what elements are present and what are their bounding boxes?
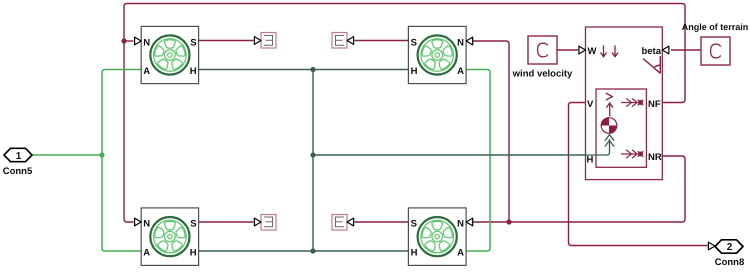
NR force icon — [621, 150, 643, 158]
junction H net top — [310, 67, 315, 72]
svg-text:A: A — [143, 66, 150, 77]
svg-text:A: A — [143, 248, 150, 259]
arrow into N port of tire BR — [466, 218, 473, 226]
svg-text:2: 2 — [727, 242, 733, 253]
center of gravity icon — [601, 118, 617, 134]
wire junction down to A port of tire BL — [102, 155, 141, 251]
wire NF output to top rail feeding N ports of left tires — [124, 4, 685, 223]
arrow into N port of tire BL — [135, 218, 142, 226]
wire S port of tire BL to terminator T3 — [198, 221, 253, 223]
svg-text:V: V — [587, 99, 594, 110]
vehicle body inner box — [596, 89, 646, 167]
svg-text:S: S — [190, 38, 196, 49]
velocity chevron icon — [606, 93, 613, 116]
junction H net bottom — [310, 248, 315, 253]
junction NR net — [506, 219, 511, 224]
tire block TL body — [141, 26, 198, 83]
wire wind velocity constant to W port — [557, 49, 578, 51]
svg-text:1: 1 — [16, 151, 22, 162]
constant block wind velocity — [528, 36, 557, 64]
svg-text:S: S — [190, 219, 196, 230]
arrow into W port — [579, 46, 586, 54]
svg-text:N: N — [143, 38, 150, 49]
wire S port of tire TL to terminator T1 — [198, 40, 253, 42]
wire terminator T2 to S port of tire TR — [355, 40, 410, 42]
arrow into beta port — [662, 46, 669, 54]
tire block BR body — [408, 208, 466, 266]
wire V output to Conn8 — [569, 103, 708, 246]
svg-text:N: N — [457, 219, 464, 230]
port Conn5 hexagon — [4, 148, 32, 162]
junction Conn5 net — [99, 152, 104, 157]
wire NR branch up to N port of tire TR — [473, 41, 509, 222]
terminator T3 — [261, 215, 276, 231]
wire junction up to A port of tire TL — [102, 70, 141, 156]
svg-text:H: H — [587, 155, 594, 166]
svg-text:Angle of terrain: Angle of terrain — [682, 22, 749, 32]
arrow into N port of tire TR — [466, 37, 473, 45]
svg-text:W: W — [588, 46, 597, 57]
svg-text:S: S — [411, 219, 417, 230]
wire NF branch to N port of tire TL — [124, 40, 134, 42]
svg-text:H: H — [190, 248, 197, 259]
terrain slope icon — [643, 56, 660, 73]
wire NR output down and left to N port of tire BR — [473, 156, 685, 222]
svg-text:A: A — [457, 248, 464, 259]
arrow into terminator T4 — [347, 218, 354, 226]
terminator T2 — [332, 33, 347, 49]
wire H port of tire TL to H port of tire TR — [198, 69, 409, 71]
svg-text:wind velocity: wind velocity — [512, 69, 573, 80]
svg-text:N: N — [457, 38, 464, 49]
junction NF rail — [121, 38, 126, 43]
terminator T1 — [261, 33, 276, 49]
svg-text:A: A — [457, 66, 464, 77]
arrow into Conn8 — [708, 242, 715, 250]
wire Conn5 to junction — [33, 154, 103, 156]
svg-text:NF: NF — [648, 99, 661, 110]
tire block TR body — [408, 26, 466, 83]
wire H net to vehicle body H port — [313, 154, 586, 156]
wire H port of tire BL to H port of tire BR — [198, 250, 409, 252]
wire angle of terrain constant to beta port — [671, 49, 701, 51]
wire H net vertical trunk — [312, 70, 314, 252]
arrow into N port of tire TL — [135, 37, 142, 45]
wire terminator T4 to S port of tire BR — [355, 221, 410, 223]
svg-text:H: H — [411, 248, 418, 259]
svg-text:NR: NR — [648, 152, 662, 163]
svg-text:beta: beta — [641, 46, 661, 57]
vehicle body block outline — [586, 27, 663, 180]
svg-text:Conn5: Conn5 — [3, 166, 33, 177]
svg-text:S: S — [411, 38, 417, 49]
wind down-arrows icon — [601, 46, 619, 57]
svg-text:H: H — [190, 66, 197, 77]
NF force icon — [621, 98, 643, 106]
arrow into terminator T1 — [254, 37, 261, 45]
svg-text:H: H — [411, 66, 418, 77]
tire block BL body — [141, 208, 198, 266]
arrow into terminator T3 — [254, 218, 261, 226]
constant block angle of terrain — [701, 37, 730, 65]
svg-text:Conn8: Conn8 — [715, 257, 745, 268]
port Conn8 hexagon — [715, 240, 743, 253]
wire A port of tire TR to A port of tire BR — [466, 70, 490, 252]
svg-text:N: N — [143, 219, 150, 230]
junction H net middle — [310, 152, 315, 157]
arrow into terminator T2 — [347, 37, 354, 45]
H green arrow icon inside vehicle body — [586, 135, 614, 155]
terminator T4 — [332, 215, 347, 231]
